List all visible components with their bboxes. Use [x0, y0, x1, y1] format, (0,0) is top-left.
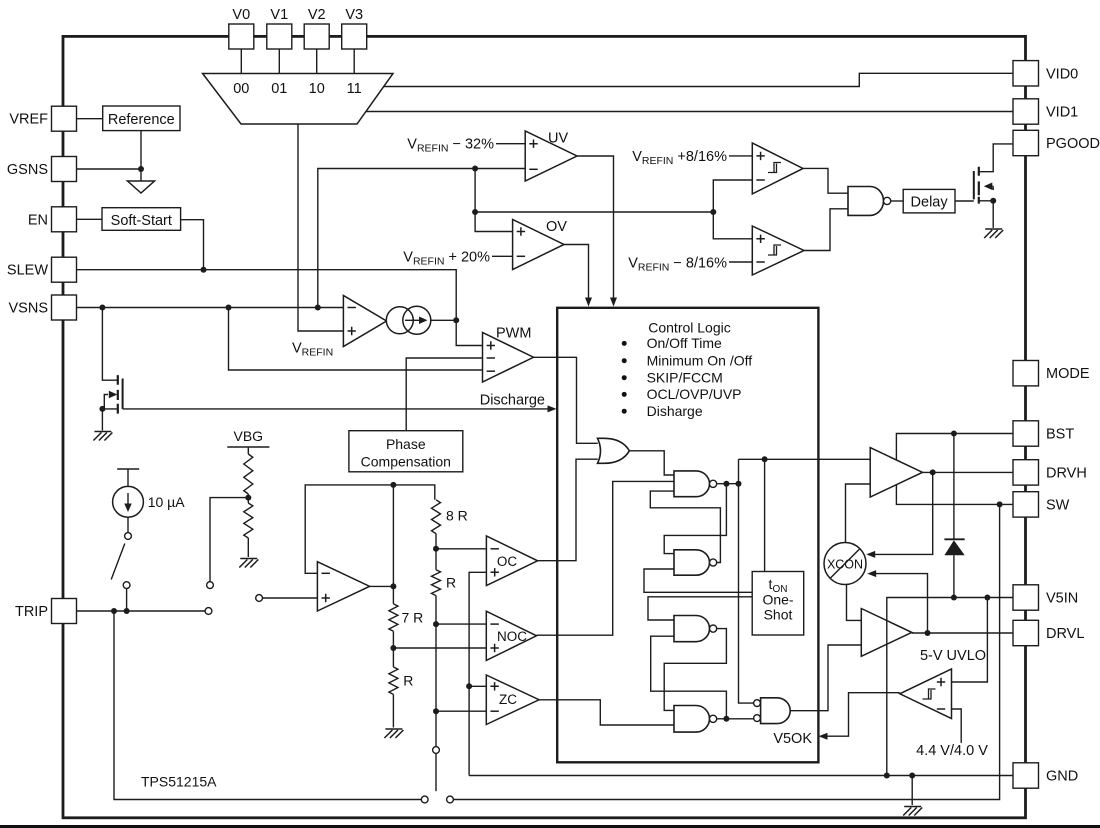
- wire V5IN rail: [887, 598, 1013, 776]
- comparator current-limit buffer: [317, 562, 369, 611]
- pin EN: [52, 207, 77, 232]
- svg-text:10: 10: [309, 81, 325, 97]
- svg-text:8 R: 8 R: [446, 508, 468, 524]
- ground below R: [384, 729, 403, 738]
- junction GND-internal: [909, 773, 915, 779]
- wire ZC plus: [469, 685, 486, 687]
- wire NOC tap to NOC plus: [393, 647, 486, 649]
- bullet SKIP/FCCM: [622, 375, 627, 380]
- wire UVLO minus to reference: [952, 709, 962, 743]
- PGOOD MOSFET Q2 channel: [978, 167, 980, 204]
- NAND gate N2: [674, 550, 710, 575]
- svg-text:MODE: MODE: [1046, 366, 1090, 382]
- svg-text:XCON: XCON: [827, 558, 863, 572]
- svg-text:EN: EN: [28, 212, 48, 228]
- wire Delay to PGOOD FET gate: [955, 200, 974, 202]
- bottom page rule: [0, 825, 1100, 828]
- junction VSNS-discharge: [99, 305, 105, 311]
- wire UVLO plus to V5IN: [952, 598, 988, 683]
- svg-text:10 µA: 10 µA: [148, 494, 186, 510]
- wire VREF to Reference: [77, 118, 103, 120]
- junction ZC minus tap: [433, 708, 439, 714]
- junction OC tap: [433, 546, 439, 552]
- svg-text:Compensation: Compensation: [361, 454, 451, 470]
- svg-text:Minimum On /Off: Minimum On /Off: [647, 353, 753, 369]
- wire switch to comparator plus: [263, 597, 318, 599]
- PGOOD MOSFET Q2 gate bar: [973, 171, 975, 199]
- wire EN to Soft-Start: [77, 218, 103, 220]
- junction ZC plus tap: [466, 683, 472, 689]
- comparator NOC: [486, 611, 536, 660]
- bullet On/Off Time: [622, 341, 627, 346]
- junction N4 out: [723, 716, 729, 722]
- wire 10uA to switch: [127, 517, 129, 532]
- wire R to ground: [392, 694, 394, 727]
- svg-text:V5IN: V5IN: [1046, 591, 1078, 607]
- junction GND-V5IN drop: [884, 773, 890, 779]
- NAND gate PGOOD: [848, 187, 884, 216]
- pin VID1: [1013, 99, 1039, 124]
- switch contact below 10uA: [123, 582, 130, 589]
- wire buffer feedback loop: [305, 485, 435, 573]
- svg-text:ZC: ZC: [499, 692, 517, 707]
- arrowhead OV into control logic: [585, 298, 592, 307]
- arrowhead Discharge into control logic: [548, 405, 557, 412]
- wire BST rail: [896, 434, 1013, 465]
- junction Q1 source: [99, 406, 105, 412]
- svg-text:01: 01: [271, 81, 287, 97]
- block Reference: [103, 106, 180, 131]
- wire Soft-Start to SLEW node: [181, 220, 204, 270]
- svg-text:VID1: VID1: [1046, 105, 1078, 121]
- wire mux to VID1: [366, 111, 1013, 113]
- wire to window lower minus: [729, 261, 752, 263]
- switch contact chain: [433, 747, 440, 754]
- wire OC tap to OC minus: [436, 548, 486, 550]
- pin V5IN: [1013, 585, 1039, 610]
- svg-text:SW: SW: [1046, 497, 1070, 513]
- junction NOC minus tap: [433, 621, 439, 627]
- junction buffer output: [390, 583, 396, 589]
- bullet OCL/OVP/UVP: [622, 392, 627, 397]
- wire VSNS to PWM minus2: [229, 308, 483, 371]
- pin V3: [342, 24, 367, 49]
- wire VSNS to UV/OV sense: [318, 169, 525, 308]
- wire N1 out to latch rail: [739, 459, 754, 703]
- junction tON feed: [762, 456, 768, 462]
- discharge MOSFET Q1 source wire: [102, 409, 117, 431]
- svg-text:4.4 V/4.0 V: 4.4 V/4.0 V: [916, 743, 988, 759]
- svg-text:PGOOD: PGOOD: [1046, 136, 1100, 152]
- pin SLEW: [52, 257, 77, 282]
- switch contact bottom right: [447, 796, 454, 803]
- svg-text:VREF: VREF: [9, 112, 48, 128]
- svg-text:Soft-Start: Soft-Start: [111, 213, 172, 229]
- wire sense to OV plus: [475, 212, 512, 232]
- svg-text:DRVL: DRVL: [1046, 626, 1084, 642]
- svg-text:OCL/OVP/UVP: OCL/OVP/UVP: [647, 386, 742, 402]
- block Delay: [903, 189, 955, 213]
- junction VBG tap: [245, 495, 251, 501]
- wire sense to window cmp upper: [713, 180, 752, 212]
- resistor 8R: [432, 500, 441, 534]
- pin V1: [267, 24, 292, 49]
- wire to OV minus: [492, 255, 513, 257]
- svg-text:GND: GND: [1046, 769, 1078, 785]
- wire PWM out into control logic: [534, 357, 598, 443]
- current source 10uA: [113, 486, 144, 517]
- discharge MOSFET Q1 body arrow: [104, 395, 108, 409]
- discharge MOSFET Q1 channel: [117, 375, 119, 414]
- wire tON to N3 in: [648, 597, 752, 620]
- wire to UV plus: [496, 143, 525, 145]
- wire bottom rail to SW: [454, 504, 1000, 799]
- svg-text:R: R: [446, 575, 456, 591]
- junction N1 out a: [723, 481, 729, 487]
- AND gate drive enable: [754, 700, 761, 707]
- svg-text:GSNS: GSNS: [7, 162, 48, 178]
- block Phase Compensation: [349, 431, 463, 472]
- wire ZC out to NAND4: [539, 700, 674, 725]
- junction sense-OV: [472, 209, 478, 215]
- wire XCON to DRVL driver: [847, 585, 862, 621]
- current source symbol: [386, 307, 413, 334]
- arrowhead V5OK into control logic: [819, 733, 828, 740]
- wire latch rail to DRVH driver: [739, 458, 871, 460]
- switch contact to comparator: [256, 595, 263, 602]
- wire CS common: [469, 572, 486, 775]
- svg-text:VID0: VID0: [1046, 66, 1078, 82]
- wire Discharge signal: [123, 408, 549, 410]
- svg-text:Shot: Shot: [764, 607, 793, 623]
- wire V5OK from UVLO: [826, 693, 900, 737]
- pin PGOOD: [1013, 130, 1039, 155]
- svg-text:UV: UV: [548, 131, 568, 147]
- svg-text:Disharge: Disharge: [647, 403, 703, 419]
- wire VBG tap to switch: [210, 498, 248, 582]
- PGOOD MOSFET Q2 drain wire: [979, 144, 1013, 172]
- wire TRIP up to switch: [126, 589, 128, 611]
- comparator UV: [525, 131, 577, 181]
- pin BST: [1013, 421, 1039, 446]
- resistor VBG upper: [247, 447, 249, 454]
- switch pole wire: [435, 754, 437, 792]
- wire V3 to mux: [353, 49, 355, 74]
- junction gm-SLEW: [453, 317, 459, 323]
- NAND gate N1: [674, 471, 710, 497]
- wire TRIP to bottom rail: [114, 611, 421, 800]
- wire feedback down to output: [392, 485, 394, 604]
- junction sense-UV: [472, 166, 478, 172]
- comparator OC: [486, 536, 537, 586]
- switch contact VBG: [207, 582, 214, 589]
- wire VSNS: [77, 307, 344, 309]
- svg-text:11: 11: [347, 81, 362, 97]
- junction feedback top: [390, 482, 396, 488]
- mux 4:1 selector: [203, 74, 393, 125]
- switch contact bottom left: [421, 796, 428, 803]
- svg-text:R: R: [403, 673, 413, 689]
- wire GND rail: [469, 775, 1013, 777]
- junction VSNS-sense: [315, 305, 321, 311]
- junction DRVL feedback: [925, 630, 931, 636]
- junction Q2 source: [990, 198, 996, 204]
- junction SW-return: [997, 501, 1003, 507]
- pin VSNS: [52, 295, 77, 320]
- wire mux to VID0: [384, 73, 1013, 86]
- junction BST-diode: [951, 431, 957, 437]
- comparator PGOOD upper window: [752, 143, 803, 194]
- switch arm 10uA: [111, 544, 125, 580]
- VBG rail bar: [227, 446, 269, 448]
- ground below Q2: [984, 229, 1003, 238]
- wire N4 out to N3 in: [651, 636, 727, 719]
- analog ground symbol below Reference: [128, 181, 155, 193]
- wire V0 to mux: [240, 49, 242, 74]
- svg-text:PWM: PWM: [496, 326, 531, 342]
- ground symbol internal: [903, 807, 922, 816]
- wire Phase Compensation to PWM minus: [406, 358, 482, 431]
- svg-text:On/Off Time: On/Off Time: [647, 335, 722, 351]
- wire tON feed: [764, 459, 766, 571]
- svg-text:TPS51215A: TPS51215A: [141, 774, 217, 790]
- wire AND out to DRVL driver: [790, 645, 861, 711]
- wire Reference to GSNS node: [140, 131, 142, 181]
- pin V2: [304, 24, 329, 49]
- svg-text:VSNS: VSNS: [9, 301, 49, 317]
- pin DRVH: [1013, 460, 1039, 485]
- wire NOC minus: [436, 623, 486, 625]
- wire OV out to control logic: [564, 245, 589, 302]
- junction TRIP-up: [124, 608, 130, 614]
- wire to window upper plus: [729, 155, 752, 157]
- wire TRIP: [77, 610, 206, 612]
- circle XCON: [824, 543, 866, 585]
- NAND gate N4: [674, 706, 710, 733]
- wire gm out to PWM plus: [456, 320, 482, 345]
- svg-text:One-: One-: [762, 592, 793, 608]
- wire R chain down: [435, 596, 437, 747]
- arrowhead DRVL into XCON: [867, 570, 876, 577]
- NAND gate N3: [674, 616, 709, 642]
- wire NOC out to NAND1: [537, 481, 675, 635]
- ground below VBG divider: [239, 559, 258, 568]
- svg-text:Discharge: Discharge: [480, 393, 545, 409]
- block Soft-Start: [102, 208, 181, 231]
- junction TRIP-bottom: [111, 608, 117, 614]
- wire V1 to mux: [278, 49, 280, 74]
- wire 8R to R: [435, 534, 437, 570]
- svg-text:NOC: NOC: [497, 629, 527, 644]
- wire N2 out to N1 in: [650, 491, 720, 562]
- junction VSNS-feedback: [226, 305, 232, 311]
- wire DRVL feedback to XCON: [871, 574, 928, 633]
- comparator OV: [513, 219, 564, 269]
- wire 7R to R: [392, 631, 394, 667]
- block Control Logic: [557, 308, 818, 763]
- svg-text:V2: V2: [308, 7, 326, 23]
- wire XCON to DRVH driver: [846, 484, 871, 543]
- pin VREF: [52, 106, 77, 131]
- wire OR out to NAND1: [629, 451, 674, 475]
- switch contact 10uA: [125, 533, 132, 540]
- block tON One-Shot: [752, 572, 804, 636]
- svg-text:BST: BST: [1046, 427, 1074, 443]
- svg-text:5-V UVLO: 5-V UVLO: [920, 648, 986, 664]
- ground below Q1: [93, 432, 112, 441]
- svg-text:OC: OC: [497, 554, 518, 569]
- wire N1 out to N2 in: [664, 484, 726, 554]
- svg-text:SLEW: SLEW: [7, 263, 48, 279]
- wire NAND to Delay: [891, 200, 904, 202]
- discharge MOSFET Q1 gate bar: [122, 379, 124, 409]
- comparator PGOOD lower window: [752, 226, 804, 275]
- PGOOD MOSFET Q2 source wire: [979, 201, 993, 228]
- comparator 5V UVLO: [900, 669, 952, 719]
- wire N1 out: [717, 483, 739, 485]
- svg-text:V0: V0: [232, 7, 250, 23]
- pin TRIP: [52, 599, 77, 624]
- svg-text:Phase: Phase: [386, 436, 426, 452]
- pin GSNS: [52, 157, 77, 182]
- pin GND: [1013, 763, 1039, 788]
- svg-text:7 R: 7 R: [402, 610, 424, 626]
- resistor R upper: [432, 570, 441, 596]
- pin VID0: [1013, 61, 1039, 86]
- pin SW: [1013, 492, 1039, 517]
- svg-text:Reference: Reference: [108, 112, 175, 128]
- wire SW rail: [896, 480, 1013, 504]
- wire window upper out to NAND: [803, 168, 848, 193]
- comparator PWM: [483, 333, 534, 383]
- switch contact TRIP line: [205, 608, 212, 615]
- svg-text:00: 00: [233, 81, 249, 97]
- svg-text:V1: V1: [270, 7, 288, 23]
- junction N1 out b: [736, 481, 742, 487]
- svg-text:Control Logic: Control Logic: [648, 319, 731, 335]
- wire gm out to SLEW node: [431, 319, 456, 321]
- OR gate: [598, 438, 630, 463]
- wire N2 in2 to tON: [644, 569, 752, 592]
- wire ZC minus: [436, 710, 486, 712]
- wire V2 to mux: [316, 49, 318, 74]
- junction NOC tap: [390, 645, 396, 651]
- wire OC out to OR: [538, 459, 598, 561]
- driver DRVH: [870, 448, 922, 498]
- bullet Disharge: [622, 409, 627, 414]
- wire window lower out to NAND: [804, 209, 848, 251]
- pin V0: [229, 24, 254, 49]
- wire mux VREFIN output: [298, 124, 343, 331]
- bootstrap diode D1: [953, 434, 955, 540]
- arrowhead DRVH into XCON: [866, 551, 875, 558]
- wire N4 out to AND: [717, 718, 754, 720]
- driver DRVL: [861, 609, 912, 657]
- wire DRVL out: [912, 632, 1013, 634]
- PGOOD MOSFET Q2 body arrow: [992, 186, 994, 190]
- arrowhead UV into control logic: [610, 298, 617, 307]
- bullet Minimum On /Off: [622, 358, 627, 363]
- wire SLEW: [77, 270, 457, 321]
- svg-text:Delay: Delay: [911, 194, 949, 210]
- svg-text:TRIP: TRIP: [15, 604, 48, 620]
- wire DRVH out: [923, 471, 1014, 473]
- svg-text:V3: V3: [345, 7, 363, 23]
- junction V5IN-diode: [951, 595, 957, 601]
- junction V5IN-UVLO: [984, 595, 990, 601]
- resistor 7R: [389, 604, 398, 632]
- wire UV out to control logic: [577, 156, 614, 301]
- comparator ZC: [486, 675, 539, 725]
- wire buffer output: [370, 585, 394, 587]
- junction sense-window: [710, 209, 716, 215]
- wire sense to window cmp lower: [713, 212, 752, 239]
- junction Soft-Start/SLEW: [201, 267, 207, 273]
- pin DRVL: [1013, 620, 1039, 645]
- discharge MOSFET Q1 drain wire: [102, 308, 117, 381]
- svg-text:V5OK: V5OK: [773, 731, 812, 747]
- wire GSNS: [77, 168, 142, 170]
- error amp gm: [343, 296, 386, 347]
- wire sense drop to OV: [474, 169, 476, 213]
- svg-text:DRVH: DRVH: [1046, 465, 1087, 481]
- wire N3 out to N4 in: [664, 629, 726, 711]
- wire DRVH feedback to XCON: [870, 472, 933, 554]
- pin MODE: [1013, 361, 1039, 386]
- junction DRVH feedback: [930, 469, 936, 475]
- wire sense to PGOOD comparators: [475, 211, 713, 213]
- resistor VBG lower: [244, 503, 253, 538]
- junction GSNS-reference: [138, 166, 144, 172]
- svg-text:SKIP/FCCM: SKIP/FCCM: [647, 370, 723, 386]
- svg-text:OV: OV: [546, 219, 567, 235]
- resistor R lower-left: [389, 667, 398, 695]
- svg-text:VBG: VBG: [234, 428, 264, 444]
- wire internal ground drop: [911, 776, 913, 806]
